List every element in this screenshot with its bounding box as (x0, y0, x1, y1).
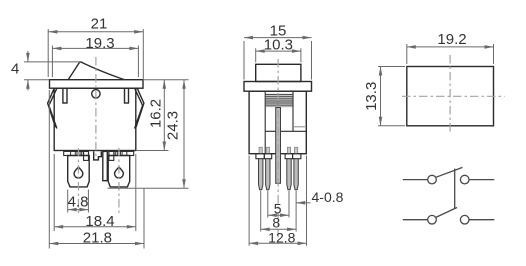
svg-text:4-0.8: 4-0.8 (312, 189, 344, 205)
svg-text:21.8: 21.8 (83, 229, 112, 246)
svg-text:4: 4 (11, 61, 19, 78)
svg-text:18.4: 18.4 (85, 213, 114, 230)
svg-text:21: 21 (91, 16, 108, 33)
svg-text:10.3: 10.3 (264, 36, 293, 53)
svg-text:13.3: 13.3 (363, 82, 380, 111)
svg-text:19.2: 19.2 (437, 31, 466, 48)
svg-text:12.8: 12.8 (268, 229, 295, 245)
svg-text:8: 8 (272, 214, 280, 230)
svg-text:19.3: 19.3 (85, 35, 114, 52)
svg-text:24.3: 24.3 (165, 111, 182, 140)
svg-text:16.2: 16.2 (147, 99, 164, 128)
svg-text:4.8: 4.8 (68, 194, 89, 211)
